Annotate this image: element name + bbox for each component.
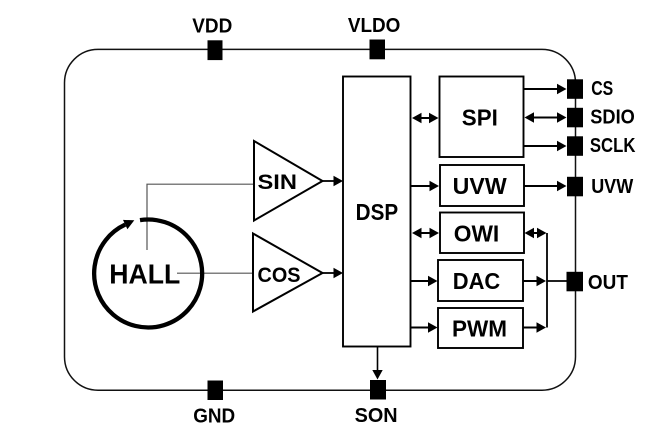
svg-text:VDD: VDD: [192, 16, 232, 38]
svg-text:SON: SON: [355, 405, 398, 427]
pin VDD: [208, 40, 223, 60]
wire COS to DSP: [323, 268, 344, 278]
wire DSP to UVW: [411, 181, 440, 191]
pin OUT: [567, 272, 584, 292]
wire UVW to pin UVW: [524, 181, 567, 191]
wire OWI to output bus: [525, 228, 547, 238]
svg-text:OWI: OWI: [454, 220, 500, 246]
pin SON: [370, 380, 386, 400]
block DSP: [343, 77, 411, 347]
wire DSP to SPI: [412, 113, 439, 123]
amplifier COS: [253, 234, 323, 312]
wire DSP to PWM: [411, 322, 438, 332]
wire DAC to bus: [523, 276, 546, 286]
wire bus to OUT: [547, 280, 567, 282]
svg-text:VLDO: VLDO: [348, 15, 401, 37]
svg-text:DAC: DAC: [453, 268, 501, 294]
svg-text:UVW: UVW: [591, 176, 633, 198]
wire SIN to DSP: [323, 176, 344, 186]
pin GND: [208, 381, 224, 401]
wire SPI to SDIO: [525, 112, 567, 122]
block DAC: [438, 260, 523, 301]
wire PWM to bus: [523, 322, 546, 332]
chip outline: [65, 49, 576, 390]
pin VLDO: [370, 40, 386, 60]
svg-text:GND: GND: [193, 405, 235, 427]
wire HALL to SIN: [147, 184, 254, 250]
svg-text:SPI: SPI: [462, 105, 498, 131]
hall sensor HALL: [94, 219, 202, 327]
wire DSP to OWI: [412, 228, 439, 238]
svg-text:SCLK: SCLK: [590, 135, 636, 157]
wire DSP to DAC: [411, 276, 438, 286]
svg-text:COS: COS: [258, 264, 301, 287]
block SPI: [440, 77, 524, 158]
svg-text:CS: CS: [591, 78, 613, 100]
wire HALL to COS: [177, 272, 253, 274]
svg-text:PWM: PWM: [452, 315, 507, 341]
pin SCLK: [567, 136, 583, 156]
wire DSP to SON: [372, 347, 382, 380]
pin UVW: [567, 177, 583, 197]
output bus vertical line: [546, 233, 548, 328]
svg-text:DSP: DSP: [356, 199, 399, 225]
wire SPI to SCLK: [524, 141, 567, 151]
svg-text:SIN: SIN: [258, 171, 298, 194]
block PWM: [438, 308, 523, 348]
wire SPI to CS: [524, 84, 567, 94]
svg-text:UVW: UVW: [453, 173, 507, 199]
svg-text:SDIO: SDIO: [590, 107, 635, 129]
block UVW: [440, 165, 524, 206]
svg-text:OUT: OUT: [588, 272, 628, 294]
block OWI: [440, 213, 524, 254]
pin CS: [567, 79, 583, 99]
svg-text:HALL: HALL: [109, 259, 180, 290]
amplifier SIN: [254, 141, 323, 221]
pin SDIO: [567, 108, 583, 128]
